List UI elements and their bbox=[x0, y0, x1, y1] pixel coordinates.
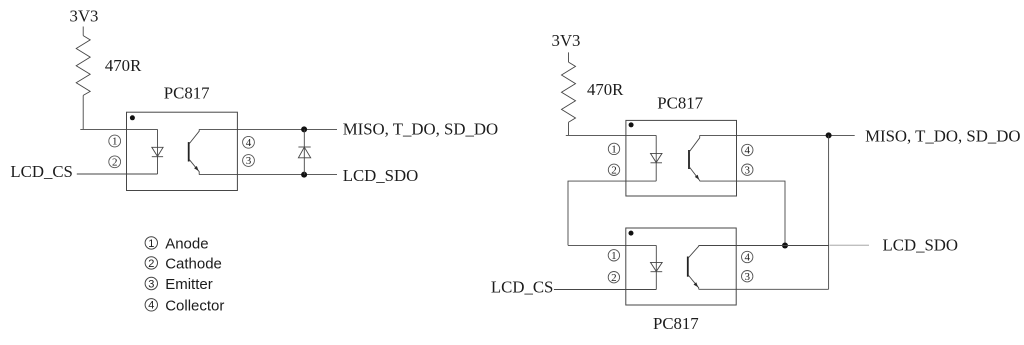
svg-text:1: 1 bbox=[611, 250, 617, 262]
svg-text:4: 4 bbox=[148, 300, 154, 312]
net LCD_SDO (left) label bbox=[343, 166, 419, 185]
phototransistor Q1 (U1) bbox=[189, 129, 200, 174]
wire pin 1 anode (U3) bbox=[568, 244, 656, 246]
wire pin 1 anode (left U1) bbox=[80, 128, 157, 130]
resistor R2 470R (right) bbox=[562, 62, 576, 122]
net 3V3 (right) label bbox=[552, 31, 581, 50]
svg-text:3: 3 bbox=[745, 164, 751, 176]
pin 1 marker dot U3 bbox=[629, 231, 634, 236]
wire resistor R2 to pin 1 of U2 bbox=[568, 122, 570, 135]
svg-text:3: 3 bbox=[148, 278, 154, 290]
pin number 4 (U2) bbox=[742, 144, 753, 156]
junction dot on LCD_SDO wire (left) bbox=[301, 172, 307, 178]
svg-text:3V3: 3V3 bbox=[70, 7, 99, 26]
svg-text:Cathode: Cathode bbox=[165, 256, 222, 273]
svg-text:3V3: 3V3 bbox=[552, 31, 581, 50]
pin number 3 (U1) bbox=[243, 155, 255, 168]
svg-text:3: 3 bbox=[246, 155, 252, 167]
wire pin 2 cathode (U3) to LCD_CS bbox=[554, 289, 656, 291]
pin 1 marker dot U1 bbox=[130, 115, 135, 120]
pin 1 marker dot U2 bbox=[629, 122, 634, 127]
pin number 3 (U3) bbox=[742, 271, 753, 283]
svg-text:470R: 470R bbox=[105, 56, 142, 75]
pin number 2 (U1) bbox=[109, 156, 121, 168]
wire pin 4 collector (U3) to LCD_SDO node bbox=[699, 245, 829, 247]
svg-text:1: 1 bbox=[112, 136, 118, 148]
svg-text:470R: 470R bbox=[587, 80, 624, 99]
svg-text:3: 3 bbox=[744, 271, 750, 283]
wire MISO node down to U3 emitter bbox=[828, 135, 830, 289]
value label 470R (left) bbox=[105, 56, 142, 75]
LED D1 inside U1 bbox=[152, 147, 163, 156]
legend pin 3 Emitter bbox=[145, 276, 213, 293]
wire 3V3 to resistor R2 bbox=[568, 52, 570, 62]
part label PC817 (U3) bbox=[653, 314, 699, 333]
wire pin 4 collector (left U1) to MISO bbox=[199, 128, 337, 130]
pin number 3 (U2) bbox=[742, 164, 753, 176]
wire LED column (U3) bbox=[655, 245, 657, 289]
wire pin 4 collector (U2) to MISO bbox=[700, 134, 855, 136]
net MISO, T_DO, SD_DO (left) label bbox=[343, 119, 498, 138]
pin number 1 (U1) bbox=[109, 135, 121, 148]
pin number 2 (U3) bbox=[608, 272, 619, 284]
svg-text:MISO, T_DO, SD_DO: MISO, T_DO, SD_DO bbox=[343, 119, 498, 138]
net LCD_CS (left) label bbox=[10, 162, 72, 181]
svg-text:2: 2 bbox=[611, 272, 617, 284]
svg-text:4: 4 bbox=[744, 252, 750, 264]
LED D4 inside U3 bbox=[651, 262, 663, 271]
svg-text:1: 1 bbox=[148, 238, 154, 250]
junction dot on MISO wire (right) bbox=[826, 132, 832, 138]
tick wire to LCD_SDO label bbox=[830, 244, 870, 246]
op-to coupler U2 body bbox=[626, 120, 737, 196]
svg-text:1: 1 bbox=[611, 144, 617, 156]
pin number 2 (U2) bbox=[608, 164, 619, 176]
wire resistor R1 to pin 1 of U1 bbox=[82, 95, 84, 129]
net LCD_SDO (right) label bbox=[883, 236, 959, 255]
svg-text:LCD_SDO: LCD_SDO bbox=[883, 236, 959, 255]
svg-text:4: 4 bbox=[745, 145, 751, 157]
svg-text:Anode: Anode bbox=[165, 235, 208, 252]
svg-text:Emitter: Emitter bbox=[165, 276, 213, 293]
wire pin 1 anode (U2 top) bbox=[566, 134, 656, 136]
svg-text:LCD_CS: LCD_CS bbox=[491, 278, 553, 297]
legend pin 1 Anode bbox=[145, 235, 208, 252]
value label 470R (right) bbox=[587, 80, 624, 99]
phototransistor Q2 (U2) bbox=[689, 135, 700, 181]
LED D3 inside U2 bbox=[651, 153, 663, 162]
part label PC817 (U2) bbox=[657, 94, 703, 113]
net MISO, T_DO, SD_DO (right) label bbox=[865, 126, 1020, 145]
wire 3V3 to resistor R1 bbox=[82, 27, 84, 36]
junction dot on MISO wire (left) bbox=[301, 126, 307, 132]
pin number 1 (U3) bbox=[608, 250, 619, 262]
part label PC817 (left U1) bbox=[164, 84, 210, 103]
svg-text:PC817: PC817 bbox=[164, 84, 210, 103]
op-to coupler U1 body bbox=[127, 112, 238, 190]
phototransistor Q3 (U3) bbox=[688, 245, 699, 289]
svg-text:4: 4 bbox=[246, 137, 252, 149]
wire LED column (left U1) bbox=[157, 129, 159, 174]
legend pin 2 Cathode bbox=[145, 256, 222, 273]
wire LED column (U2) bbox=[655, 135, 657, 181]
svg-text:2: 2 bbox=[611, 164, 617, 176]
resistor R1 470R (left) bbox=[76, 36, 90, 96]
wire pin 2 cathode (U2) down to U3 anode bbox=[568, 181, 656, 245]
svg-text:2: 2 bbox=[148, 258, 154, 270]
pin number 1 (U2) bbox=[608, 143, 619, 155]
wire pin 2 cathode (left U1) bbox=[77, 173, 158, 175]
wire pin 3 emitter (U3) to MISO column bbox=[699, 288, 829, 290]
pin number 4 (U3) bbox=[742, 251, 753, 263]
pin number 4 (U1) bbox=[243, 136, 255, 148]
diode D2 clamp between MISO and LCD_SDO bbox=[298, 129, 310, 174]
legend pin 4 Collector bbox=[145, 297, 224, 314]
junction dot U2 emitter to U3 collector bbox=[782, 243, 788, 249]
svg-text:LCD_SDO: LCD_SDO bbox=[343, 166, 419, 185]
svg-text:PC817: PC817 bbox=[657, 94, 703, 113]
svg-text:Collector: Collector bbox=[165, 297, 224, 314]
op-to coupler U3 body bbox=[626, 228, 736, 305]
wire pin 3 emitter (left U1) to LCD_SDO bbox=[199, 174, 337, 176]
svg-text:PC817: PC817 bbox=[653, 314, 699, 333]
svg-text:MISO, T_DO, SD_DO: MISO, T_DO, SD_DO bbox=[865, 126, 1020, 145]
wire pin 3 emitter (U2) down to U3 collector node bbox=[700, 181, 785, 245]
svg-text:2: 2 bbox=[112, 156, 118, 168]
net LCD_CS (right) label bbox=[491, 278, 553, 297]
net 3V3 (left) label bbox=[70, 7, 99, 26]
svg-text:LCD_CS: LCD_CS bbox=[10, 162, 72, 181]
